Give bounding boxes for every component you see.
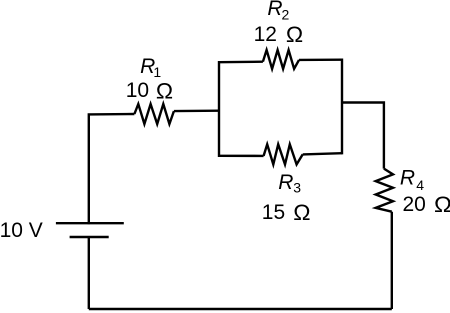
svg-text:R: R: [400, 166, 415, 189]
wire battery negative to bottom: [88, 236, 90, 309]
wire left vertical + top-left horizontal: [89, 114, 135, 224]
wire R1 to parallel box: [174, 109, 219, 112]
wire box to R4 top: [342, 103, 384, 169]
resistor R4: [376, 169, 393, 212]
resistor R1: [134, 104, 174, 124]
svg-text:3: 3: [293, 180, 301, 196]
svg-text:Ω: Ω: [434, 192, 450, 217]
svg-text:Ω: Ω: [293, 200, 310, 225]
svg-text:4: 4: [416, 177, 424, 193]
battery V1 positive plate (long): [56, 222, 124, 224]
svg-text:12: 12: [254, 23, 277, 46]
svg-text:20: 20: [403, 193, 426, 216]
svg-text:Ω: Ω: [286, 22, 303, 47]
wire box bottom-left segment: [219, 155, 264, 157]
svg-text:R: R: [278, 171, 293, 194]
svg-text:15: 15: [262, 201, 285, 224]
resistor R2: [263, 50, 299, 69]
svg-text:2: 2: [282, 7, 290, 23]
battery V1 negative plate (short): [70, 236, 109, 238]
svg-text:10: 10: [126, 79, 149, 102]
wire parallel box left vertical: [218, 61, 220, 157]
svg-text:10 V: 10 V: [0, 219, 43, 242]
wire box bottom-right segment: [303, 153, 342, 154]
resistor R3: [264, 144, 303, 164]
svg-text:R: R: [267, 0, 282, 20]
wire parallel box right vertical: [341, 59, 343, 155]
wire box top-right segment: [299, 59, 342, 62]
wire bottom horizontal: [89, 308, 392, 310]
svg-text:Ω: Ω: [156, 78, 173, 103]
wire R4 bottom vertical: [391, 212, 393, 309]
wire box top-left segment: [219, 61, 263, 64]
